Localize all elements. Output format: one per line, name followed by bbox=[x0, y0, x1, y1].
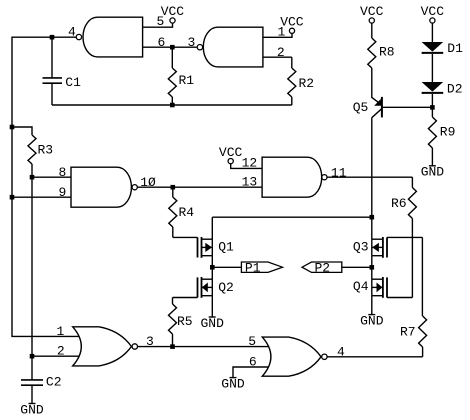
svg-text:P1: P1 bbox=[245, 261, 261, 276]
junction D2/R9/Q5 base node bbox=[430, 105, 435, 110]
wire bottom rail C1-R1-R2 bbox=[52, 104, 292, 106]
svg-text:VCC: VCC bbox=[161, 4, 185, 19]
svg-text:VCC: VCC bbox=[360, 4, 384, 19]
wire Q4 gate to R6 bbox=[387, 297, 412, 299]
junction rail/collector node bbox=[370, 215, 375, 220]
svg-text:11: 11 bbox=[331, 165, 347, 180]
svg-text:1Ø: 1Ø bbox=[140, 175, 156, 190]
wire Q1 drain up bbox=[211, 217, 213, 239]
svg-text:R2: R2 bbox=[299, 76, 315, 91]
svg-text:R8: R8 bbox=[379, 45, 395, 60]
ground below C2 bbox=[29, 403, 36, 405]
resistor R8 bbox=[371, 23, 373, 38]
svg-text:R4: R4 bbox=[179, 205, 195, 220]
wire net 10 (U3 output to pin 13) bbox=[137, 186, 262, 188]
resistor R4 bbox=[172, 187, 174, 197]
junction R4 tap bbox=[171, 185, 176, 190]
nand gate U3 (pins 8,9,10) bbox=[71, 167, 131, 207]
svg-text:R1: R1 bbox=[179, 73, 195, 88]
svg-text:Q3: Q3 bbox=[353, 240, 369, 255]
junction node C1 tap bbox=[50, 35, 55, 40]
transistor Q4 bbox=[386, 277, 388, 297]
svg-text:Q1: Q1 bbox=[218, 239, 234, 254]
svg-text:VCC: VCC bbox=[421, 4, 445, 19]
wire Q4 source to ground bbox=[371, 296, 373, 315]
ground below Q4 bbox=[368, 314, 375, 316]
diode D2 bbox=[422, 82, 444, 92]
wire pin 2 to R2 bbox=[263, 56, 292, 58]
wire pin 8 bbox=[32, 176, 72, 178]
power VCC above D1 bbox=[430, 18, 435, 23]
svg-text:D2: D2 bbox=[447, 81, 463, 96]
ground at pin 6 bbox=[230, 377, 237, 379]
svg-text:GND: GND bbox=[221, 376, 245, 391]
svg-text:9: 9 bbox=[59, 185, 67, 200]
nand gate U4 (pins 12,13,11) bbox=[262, 157, 322, 197]
power VCC at pin 5 bbox=[170, 18, 175, 23]
svg-text:3: 3 bbox=[188, 35, 196, 50]
wire left net down to NOR input 2 bbox=[32, 177, 80, 356]
junction P2 node bbox=[370, 265, 375, 270]
wire R4 to Q1 gate bbox=[173, 236, 198, 238]
ground below R9 bbox=[429, 165, 436, 167]
svg-text:2: 2 bbox=[57, 344, 65, 359]
transistor Q1 bbox=[197, 237, 199, 257]
wire net 11 (U4 output to R6) bbox=[327, 176, 412, 178]
wire net 4 (U6 output to R7) bbox=[327, 356, 423, 358]
resistor R6 bbox=[411, 177, 413, 187]
wire pin 6 to ground bbox=[233, 367, 269, 378]
resistor R5 bbox=[172, 298, 174, 305]
wire Q2 gate to R5 bbox=[173, 297, 198, 299]
svg-text:Q2: Q2 bbox=[218, 280, 234, 295]
svg-text:GND: GND bbox=[201, 316, 225, 331]
power VCC at pin 1 bbox=[289, 28, 294, 33]
svg-text:GND: GND bbox=[20, 402, 44, 417]
wire Q3 source / Q4 drain node bbox=[371, 256, 373, 280]
wire D2 to node bbox=[431, 94, 433, 108]
svg-text:C1: C1 bbox=[65, 75, 81, 90]
svg-text:Q4: Q4 bbox=[353, 279, 369, 294]
junction R3 tap bbox=[10, 125, 15, 130]
svg-text:R5: R5 bbox=[177, 314, 193, 329]
svg-text:GND: GND bbox=[421, 165, 445, 180]
nor gate U5 (pins 1,2,3) bbox=[73, 327, 132, 366]
svg-text:R9: R9 bbox=[440, 125, 456, 140]
junction P1 node bbox=[210, 265, 215, 270]
wire D1 to D2 bbox=[431, 54, 433, 82]
transistor Q3 bbox=[386, 237, 388, 257]
nand gate U2 (pins 3,1,2) bbox=[203, 27, 263, 67]
power VCC at pin 12 bbox=[228, 159, 233, 164]
wire pin 6 to U2 output bbox=[143, 46, 197, 48]
wire Q5 base to D2 node bbox=[383, 106, 433, 108]
wire pin 5 to VCC bbox=[143, 23, 173, 27]
wire pin 12 to VCC bbox=[231, 164, 262, 169]
wire Q3 gate to R7 line bbox=[387, 236, 422, 238]
transistor Q2 bbox=[197, 277, 199, 297]
junction pin 9 tap bbox=[10, 195, 15, 200]
wire Q1 source / Q2 drain node bbox=[211, 256, 213, 280]
resistor R3 bbox=[12, 127, 32, 135]
svg-text:VCC: VCC bbox=[219, 145, 243, 160]
wire pin 9 bbox=[12, 196, 72, 198]
power VCC above R8 bbox=[369, 18, 374, 23]
port P2 bbox=[302, 262, 342, 272]
svg-text:Q5: Q5 bbox=[353, 100, 369, 115]
wire net 3 (U5 output to U6 input 5) bbox=[138, 346, 269, 348]
capacitor C1 bbox=[51, 37, 53, 77]
capacitor C2 bbox=[31, 356, 33, 379]
wire rail Q1 drain to Q5 collector bbox=[212, 216, 371, 218]
svg-text:5: 5 bbox=[248, 334, 256, 349]
resistor R7 bbox=[421, 237, 423, 316]
svg-text:D1: D1 bbox=[447, 41, 463, 56]
resistor R2 bbox=[291, 57, 293, 68]
svg-text:R6: R6 bbox=[391, 196, 407, 211]
diode D1 bbox=[422, 42, 444, 52]
wire Q5 collector down to Q3 bbox=[371, 118, 373, 240]
junction R5 tap bbox=[170, 344, 175, 349]
svg-text:R7: R7 bbox=[400, 325, 416, 340]
ground below Q2 bbox=[209, 316, 216, 318]
nand gate U1 (pins 4,5,6) bbox=[83, 17, 143, 57]
svg-text:VCC: VCC bbox=[280, 15, 304, 30]
resistor R9 bbox=[431, 107, 433, 117]
junction C2 tap bbox=[30, 354, 35, 359]
wire VCC to D1 bbox=[431, 23, 433, 42]
wire Q2 source to ground bbox=[211, 296, 213, 317]
junction R3 bottom node bbox=[30, 175, 35, 180]
svg-text:1: 1 bbox=[57, 324, 65, 339]
svg-text:P2: P2 bbox=[315, 261, 331, 276]
wire node to P1 port bbox=[212, 266, 241, 268]
nor gate U6 (pins 5,6,4) bbox=[262, 337, 321, 376]
svg-text:R3: R3 bbox=[38, 143, 54, 158]
port P1 bbox=[241, 262, 282, 272]
svg-text:C2: C2 bbox=[46, 375, 62, 390]
junction R1 tap bbox=[170, 45, 175, 50]
junction R1 bottom bbox=[170, 103, 175, 108]
resistor R1 bbox=[171, 47, 173, 68]
wire U1 output 4 to left rail down to NOR U5 input 1 bbox=[12, 37, 79, 336]
transistor Q5 bbox=[381, 97, 383, 118]
wire P2 port to node bbox=[342, 266, 372, 268]
wire pin 1 to VCC bbox=[263, 33, 292, 37]
svg-text:GND: GND bbox=[360, 313, 384, 328]
